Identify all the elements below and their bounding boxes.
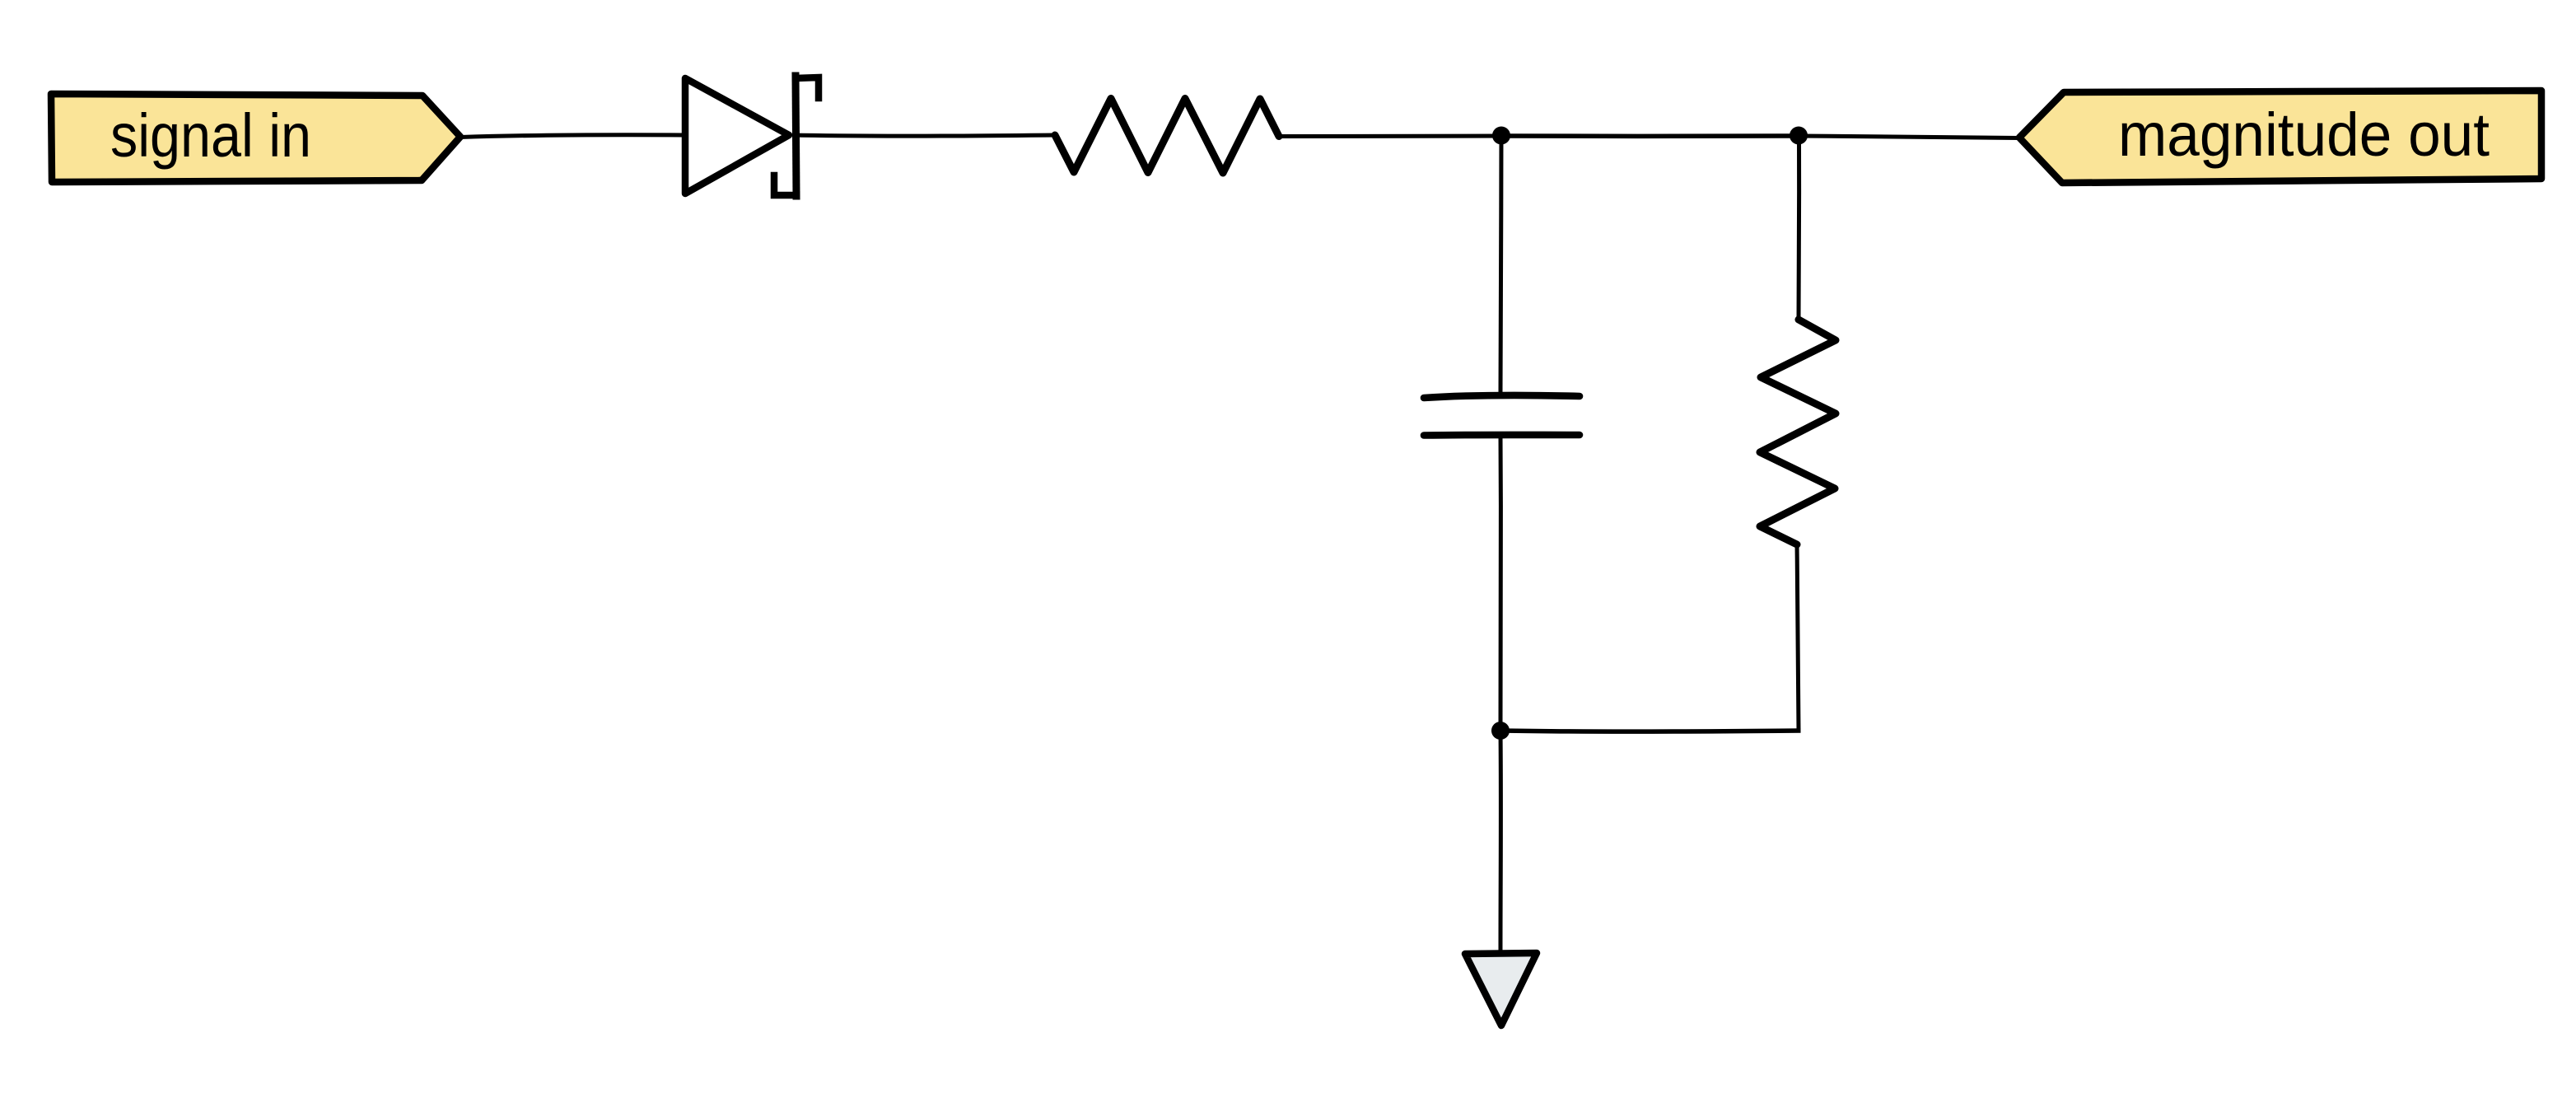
node B <box>1790 127 1808 145</box>
wire diode to resistor R1 <box>792 135 1055 136</box>
ground <box>1465 953 1537 1026</box>
diode D1 (Schottky) <box>685 76 819 196</box>
wire R1 to node A <box>1279 134 1501 139</box>
net label "signal in" flag <box>51 94 460 182</box>
wire tag tip to diode <box>460 135 685 138</box>
capacitor C1 <box>1424 395 1580 436</box>
svg-text:signal in: signal in <box>110 101 311 170</box>
node C <box>1491 722 1510 740</box>
resistor R1 <box>1055 99 1279 174</box>
wire node C to R2 bottom <box>1500 731 1801 731</box>
wire node C down to ground <box>1499 731 1503 951</box>
wire capacitor to node C <box>1499 434 1503 731</box>
wire node B to output tag <box>1799 136 2019 138</box>
net label "magnitude out" flag <box>2019 91 2541 183</box>
wire node B down to resistor R2 <box>1797 136 1802 320</box>
wire node A down to capacitor <box>1500 136 1501 394</box>
wire node A to node B <box>1501 133 1799 138</box>
wire R2 bottom down <box>1797 544 1799 731</box>
svg-text:magnitude out: magnitude out <box>2118 100 2490 169</box>
resistor R2 <box>1760 320 1836 544</box>
node A <box>1492 127 1510 145</box>
